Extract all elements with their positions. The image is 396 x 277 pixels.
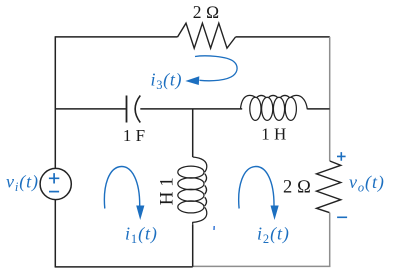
source plus xyxy=(49,173,59,183)
inductor L horizontal 1H xyxy=(240,95,307,120)
wire left xyxy=(54,36,56,267)
mesh arrow i2 xyxy=(239,166,274,208)
wire right gray xyxy=(329,37,331,267)
wire middle horizontal xyxy=(55,108,329,110)
source Vi circle xyxy=(40,168,71,199)
minus right xyxy=(337,216,347,218)
inductor L vertical 1H xyxy=(178,157,207,225)
mesh arrow i3 xyxy=(195,56,237,81)
svg-text:vi(t): vi(t) xyxy=(6,172,39,195)
svg-text:1 F: 1 F xyxy=(123,126,145,145)
svg-text:i2(t): i2(t) xyxy=(257,224,290,247)
capacitor C 1F xyxy=(126,96,128,123)
svg-text:i3(t): i3(t) xyxy=(151,70,183,93)
resistor R top 2ohm xyxy=(178,23,236,48)
svg-text:2 Ω: 2 Ω xyxy=(193,2,220,22)
resistor R right 2ohm xyxy=(317,161,341,213)
svg-text:i1(t): i1(t) xyxy=(125,224,158,247)
wire bottom xyxy=(55,266,193,268)
wire bottom right gray xyxy=(193,265,331,267)
wire top xyxy=(55,36,330,38)
stray tick mark xyxy=(213,226,215,230)
source minus xyxy=(49,191,59,193)
wire middle branch xyxy=(192,109,194,267)
svg-text:vo(t): vo(t) xyxy=(349,172,385,195)
svg-text:H 1: H 1 xyxy=(157,177,178,205)
svg-text:1 H: 1 H xyxy=(261,125,286,144)
plus right xyxy=(337,152,346,161)
mesh arrow i1 xyxy=(104,166,139,208)
svg-text:2 Ω: 2 Ω xyxy=(283,178,311,198)
